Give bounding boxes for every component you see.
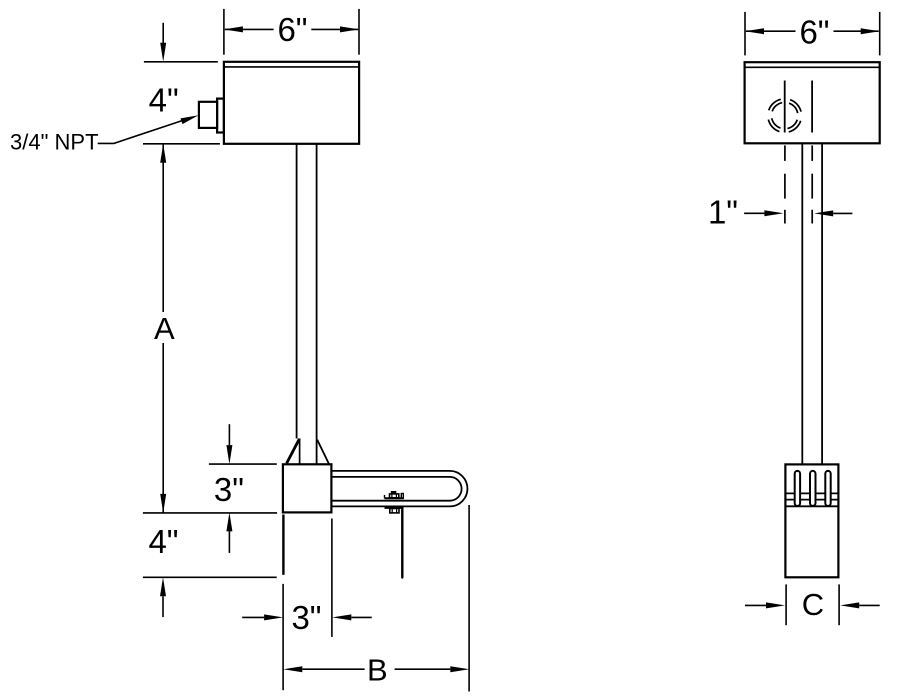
dim A xyxy=(160,144,166,513)
svg-text:A: A xyxy=(154,311,175,346)
dim 4" lower left xyxy=(143,513,277,617)
svg-text:6": 6" xyxy=(799,14,829,51)
dim 3" bottom xyxy=(242,519,372,637)
pipe front view xyxy=(297,144,317,465)
pipe side view xyxy=(802,143,822,464)
svg-text:1": 1" xyxy=(708,194,738,231)
junction box side view xyxy=(745,62,880,143)
element block side view xyxy=(785,464,838,577)
dim 6" front xyxy=(224,9,359,55)
hidden edge below element box xyxy=(282,515,284,575)
svg-text:3/4" NPT: 3/4" NPT xyxy=(10,130,99,155)
leader 3/4" NPT xyxy=(10,115,199,154)
svg-text:4": 4" xyxy=(148,523,178,560)
dim B xyxy=(283,505,469,692)
3/4 NPT fitting xyxy=(199,99,224,133)
dim 3" element box height xyxy=(209,424,277,553)
svg-text:B: B xyxy=(367,653,388,688)
junction box front view xyxy=(224,62,359,144)
element box front view xyxy=(283,464,332,512)
hairpin tubular element xyxy=(331,471,467,507)
hidden thread circles xyxy=(764,94,806,136)
dim 4" top left xyxy=(143,23,220,144)
svg-text:3": 3" xyxy=(291,599,321,636)
svg-text:C: C xyxy=(802,587,824,622)
svg-text:3": 3" xyxy=(214,471,244,508)
block cross lines xyxy=(785,493,838,506)
element slots end view xyxy=(795,471,831,506)
svg-text:4": 4" xyxy=(149,82,179,119)
dim 6" side xyxy=(745,12,880,56)
element legs inside box xyxy=(785,81,812,133)
mounting bracket with bolt xyxy=(385,491,404,578)
dim 1" xyxy=(744,210,852,216)
dim C xyxy=(745,584,880,625)
svg-text:6": 6" xyxy=(277,11,307,48)
hidden lines side view xyxy=(785,145,812,223)
weld flare xyxy=(287,439,329,465)
